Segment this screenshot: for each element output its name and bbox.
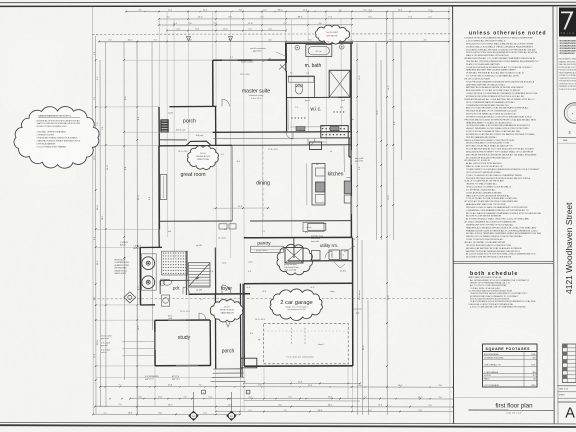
notes separator [454, 260, 553, 262]
master/mbath divider wall [285, 43, 287, 63]
pdr fixtures [163, 279, 171, 285]
porch right wall [215, 107, 217, 146]
hall door arcs [286, 132, 293, 139]
exterior wall master top [213, 59, 287, 61]
front door arc [222, 285, 231, 294]
pantry shelves [251, 246, 284, 252]
square footages table [483, 344, 538, 387]
study walls [154, 320, 156, 366]
utility bottom wall [288, 260, 353, 262]
small boxes wic bottom [296, 127, 305, 131]
garage walls [244, 282, 353, 285]
pdr door arc [183, 287, 190, 294]
wall-to-dim extension lines bottom [243, 366, 245, 412]
exterior right wall [350, 43, 352, 238]
hall wall below dining [159, 220, 232, 222]
master bottom wall [213, 131, 287, 133]
sheet bottom border [0, 422, 576, 424]
sconce circles [295, 45, 300, 50]
wic shelf lines [287, 100, 289, 130]
utility divider [293, 238, 295, 258]
porch roof line [99, 40, 449, 43]
mbath door swing [279, 63, 286, 71]
dotted hatch area [162, 251, 188, 275]
right row of ticks on y11.5 [144, 11, 145, 12]
logo box [559, 8, 576, 37]
dining interior dim line [213, 207, 270, 209]
mbath left wall [285, 43, 287, 72]
study window marks [168, 319, 186, 321]
ac pad [142, 254, 157, 290]
vanity [289, 77, 315, 82]
cloud 2 car garage [270, 289, 322, 321]
left exterior wall lower [158, 230, 160, 248]
mbath wic divider [287, 96, 329, 98]
utility door arc [325, 251, 332, 258]
chimney hatched box [161, 120, 168, 132]
great room left wall [158, 146, 160, 230]
garage interior dash cross [264, 330, 348, 332]
setback dashed line [92, 33, 453, 36]
diamond marker 1 [188, 411, 198, 421]
foyer walls [214, 248, 216, 295]
cloud porch entry [210, 299, 242, 321]
diamond fixture left wall [124, 292, 136, 303]
master window lines top [222, 59, 238, 61]
pdr room [160, 279, 190, 281]
shower [329, 70, 350, 97]
great room top wall + bay [159, 145, 186, 147]
master left wall [212, 60, 214, 107]
seal circle [564, 103, 576, 123]
study door arc [199, 313, 206, 320]
garage door dashed [264, 324, 349, 364]
toilet room walls [288, 75, 315, 77]
sheet top border [0, 1, 576, 3]
porch bottom wall [159, 139, 187, 141]
cloud great room [187, 146, 218, 170]
dining window lines right [350, 150, 352, 165]
water heater X box [285, 248, 303, 264]
right wall step kitchen [348, 138, 350, 157]
wic bottom wall [287, 131, 351, 133]
garage right fence line [353, 308, 362, 310]
bottom dimension lines [244, 382, 360, 384]
stairs [185, 251, 187, 295]
porch steps [214, 368, 243, 370]
cloud utility [277, 244, 312, 274]
revision cloud left notes [14, 107, 99, 169]
sheet info rows [558, 385, 576, 387]
w rack box [303, 223, 324, 232]
wic dots [291, 117, 292, 118]
pantry utility top wall [244, 236, 353, 238]
window markers [187, 37, 191, 42]
porch top wall [170, 105, 217, 107]
ac compressor 2 [142, 276, 155, 289]
porch left wall [158, 107, 160, 146]
divider notes/titleblock [553, 6, 554, 424]
great room left window rect [160, 175, 167, 200]
top dimension lines [126, 10, 449, 12]
interior grid extension lines [166, 12, 168, 237]
paper scan noise [0, 0, 1, 1]
porch roof V [217, 301, 239, 327]
revision table [563, 344, 576, 383]
garage step notch [241, 358, 257, 368]
kitchen right wall counter [343, 145, 345, 172]
divider plan/notes [449, 6, 450, 423]
foyer bottom exterior wall [189, 293, 250, 295]
lower porch walls [214, 294, 216, 369]
dashed setback garage front [93, 297, 453, 300]
dining kitchen top wall [232, 144, 351, 147]
left vertical dimension lines [92, 7, 95, 415]
ac compressor 1 [142, 257, 155, 270]
hall lines below master [213, 137, 351, 140]
cloud closet top red [315, 25, 349, 44]
wall-to-dim extension lines left [96, 106, 159, 108]
utility appliances [312, 251, 321, 261]
kitchen counters [312, 164, 325, 206]
tub [306, 45, 332, 57]
ref space box [310, 142, 322, 150]
diamond marker 2 [226, 411, 236, 421]
wall-to-dim extension top [285, 12, 287, 44]
exterior wall m.bath top [285, 42, 353, 44]
leader arrows [344, 246, 355, 252]
av niche boxes [219, 224, 227, 229]
more bottom tick clusters [109, 398, 110, 399]
door tag squares [202, 390, 206, 394]
kitchen hatch cabinet [321, 126, 348, 138]
toilet [295, 85, 302, 94]
seal inner texture [567, 104, 576, 123]
right vertical dimension lines [356, 43, 358, 415]
